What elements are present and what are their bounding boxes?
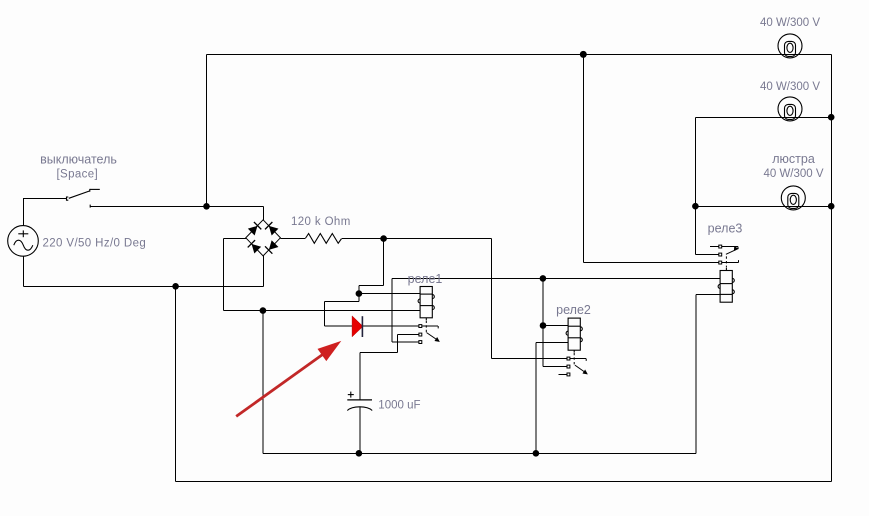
wire: switched live drop (583, 55, 585, 263)
svg-text:реле3: реле3 (708, 222, 743, 236)
wire: right vertical bus (830, 55, 832, 482)
wire: relay1 row3 lead (392, 341, 419, 343)
node: AC bottom / return (172, 283, 179, 290)
bridge diode low-left (248, 240, 262, 254)
resistor R1 120 k Ohm (305, 234, 341, 244)
svg-text:40 W/300 V: 40 W/300 V (760, 17, 820, 29)
wire: relay1 NO riser (391, 279, 393, 343)
wire: bridge right lead to resistor (281, 238, 305, 240)
lamp X1 40W/300V (778, 34, 802, 58)
wire: LED cathode to relay1 common (363, 325, 419, 327)
node: lamp3 left (692, 203, 699, 210)
wire: bridge left vertex lead (224, 238, 247, 240)
wire: relay2 coil bottom drop (535, 343, 537, 454)
wire: relay1 coil top lead (359, 293, 420, 295)
node: coil return branch (260, 307, 267, 314)
wire: resistor to node and right (342, 238, 491, 240)
wire: relay3 coil bottom lead (696, 294, 720, 296)
lamp X3 lustra 40W/300V (781, 186, 805, 210)
relay coil K1 (rele1) (418, 287, 434, 321)
wire: vertical up from switch node (206, 55, 208, 207)
svg-text:люстра: люстра (772, 152, 815, 166)
wire: relay2 coil bottom lead (536, 342, 568, 344)
wire: relay3 row2 lead (696, 254, 720, 256)
AC source V1 220 V/50 Hz/0 Deg (8, 226, 39, 257)
wire: switch output to node (91, 206, 264, 208)
relay1 contacts (419, 321, 439, 344)
wire: top horizontal rail (207, 54, 832, 56)
node: relay2 coil top (540, 322, 547, 329)
wire: lamp left vertical (695, 118, 697, 255)
wire: LED anode lead (325, 325, 353, 327)
wire: relay1 row2 lead (397, 334, 419, 336)
relay coil K2 (rele2) (566, 318, 582, 352)
svg-text:120 k Ohm: 120 k Ohm (291, 216, 351, 228)
wire: inner bottom rail (263, 453, 696, 455)
wire: vertical to inner rail left (262, 311, 264, 454)
bridge diode up-right (265, 222, 279, 236)
capacitor C1 1000 uF (347, 392, 372, 411)
node: coil feed bus / relay2 drop (540, 275, 547, 282)
node: cap bottom rail (356, 450, 363, 457)
svg-text:220 V/50 Hz/0 Deg: 220 V/50 Hz/0 Deg (43, 237, 147, 249)
wire: switch left lead (23, 198, 67, 200)
wire: jog left to LED branch (325, 301, 359, 303)
bridge rectifier D1 (246, 220, 281, 256)
svg-text:реле2: реле2 (556, 303, 591, 317)
wire: LED branch vertical (324, 302, 326, 327)
wire: vertical down from bridge left (223, 239, 225, 311)
wire: AC bottom horizontal to bridge (24, 286, 264, 288)
wire: jog left (359, 285, 384, 287)
wire: AC source bottom lead (23, 256, 25, 287)
svg-text:реле1: реле1 (408, 272, 443, 286)
node: switch output (203, 203, 210, 210)
wire: node A drop (383, 239, 385, 286)
node: relay1 coil top (356, 290, 363, 297)
node: top rail / switched-live drop (580, 51, 587, 58)
switch S1 [Space] (67, 189, 100, 208)
svg-text:1000 uF: 1000 uF (378, 399, 420, 411)
wire: relay2 row3 stub (558, 374, 567, 376)
bridge diode up-left (248, 222, 262, 236)
annotation arrow (red) (236, 341, 341, 417)
svg-text:40 W/300 V: 40 W/300 V (763, 168, 823, 180)
wire: bridge top vertex lead (263, 207, 265, 221)
wire: relay2 row2 lead (543, 366, 567, 368)
svg-text:выключатель: выключатель (40, 152, 117, 166)
wire: cap bottom lead (359, 406, 361, 453)
wire: relay2 coil top lead (543, 325, 568, 327)
wire: relay1 coil bottom feed (224, 310, 421, 312)
node: resistor output (380, 235, 387, 242)
wire: drop to relay2 coil (542, 279, 544, 367)
wire: bottom outer rail (176, 481, 832, 483)
wire: left return vertical (175, 287, 177, 482)
node: lamp3 right (828, 203, 835, 210)
wire: relay1 row2 drop (396, 335, 398, 353)
wire: cap top lead (359, 353, 361, 401)
wire: lamp3 row (696, 206, 832, 208)
bridge diode low-right (265, 240, 279, 254)
node: lamp2 right (828, 114, 835, 121)
LED D2 (red) (352, 316, 363, 337)
wire: vertical from resistor node to relay2 row (491, 239, 493, 359)
wire: drop to coil1 node (358, 286, 360, 302)
wire: relay3 row3 feed (584, 262, 720, 264)
wire: lamp2 row (696, 117, 832, 119)
node: relay2 bottom rail (533, 450, 540, 457)
svg-text:[Space]: [Space] (56, 168, 98, 180)
lamp X2 40W/300V (778, 97, 802, 121)
relay coil K3 (rele3) (718, 268, 734, 302)
relay2 contacts (567, 353, 587, 376)
wire: bridge bottom vertex lead (263, 256, 265, 287)
wire: relay2 common row feed (492, 358, 568, 360)
wire: row2 to cap top (360, 352, 398, 354)
wire: relay3 coil bottom drop (695, 295, 697, 454)
wire: coil feed bus y278 (392, 278, 720, 280)
wire: AC source top lead (23, 199, 25, 227)
svg-text:40 W/300 V: 40 W/300 V (760, 81, 820, 93)
relay3 contacts (719, 245, 739, 267)
wire: relay3 row1 stub (710, 246, 719, 248)
